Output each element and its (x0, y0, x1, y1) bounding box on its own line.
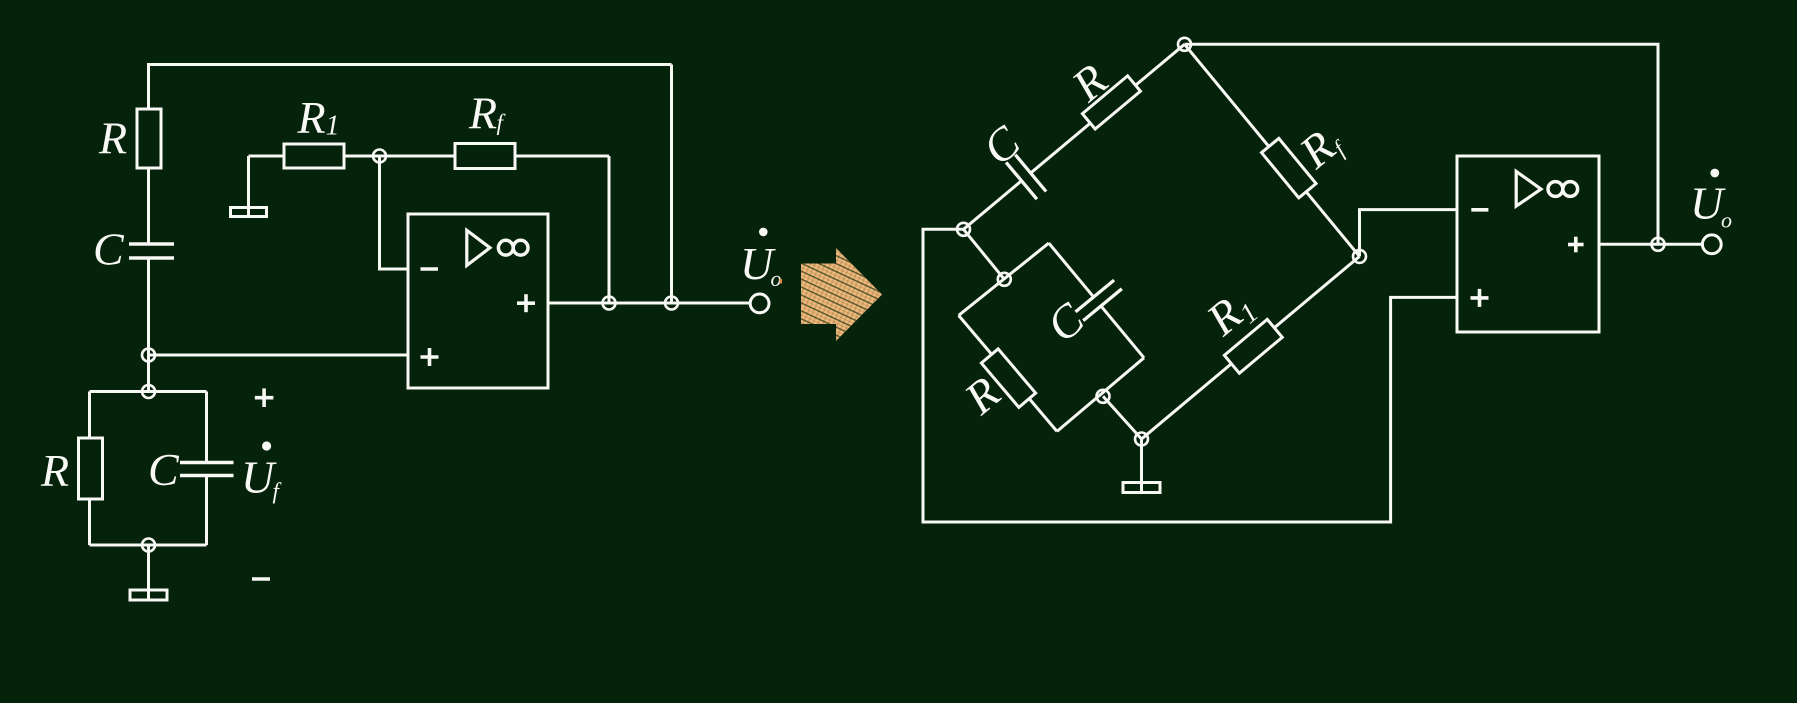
output terminal Uo (left) (750, 294, 769, 313)
ground (right circuit) stem (1140, 439, 1143, 492)
wire: op-amp output to terminal (1599, 243, 1702, 246)
capacitor C (small diamond) plates (1076, 280, 1115, 312)
plus sign (Uf polarity) (255, 396, 274, 400)
op-amp U1 output plus label (517, 301, 535, 305)
wire: Rf column down to output (608, 156, 611, 303)
resistor R1 (284, 144, 344, 168)
wire: right node stub up to op-amp - input (1360, 210, 1458, 257)
svg-text:C: C (93, 224, 125, 275)
node: R1/Rf junction (373, 150, 386, 163)
resistor R1 (bridge bottom-right arm) (1224, 319, 1282, 373)
node: RC loop bottom junction (142, 539, 155, 552)
svg-text:o: o (771, 266, 782, 291)
label R (small diamond) rotated (954, 367, 1009, 425)
wire: feedback column down (670, 65, 673, 304)
wire: series C to top node (bridge left arm upper, through R) (1031, 44, 1184, 172)
wire: top feedback from R top to output column (149, 63, 672, 66)
wire: RC loop top edge (90, 390, 207, 393)
label Uf with dot (262, 441, 271, 450)
resistor R (parallel RC, left branch) (79, 438, 103, 499)
wire: bottom node to right node through R1 (1142, 256, 1360, 439)
label Rf rotated (1289, 114, 1352, 179)
node: bridge left (957, 223, 970, 236)
resistor Rf (455, 144, 515, 169)
op-amp A2 infinity symbol (1548, 182, 1563, 197)
wire: left loop from L around bottom to op-amp + input (923, 229, 1457, 522)
capacitor C (series, left column) plates (129, 242, 174, 246)
node: feedback output junction (665, 297, 678, 310)
capacitor C (parallel RC) plates (180, 461, 234, 465)
svg-text:R: R (98, 113, 127, 164)
node: RC loop top junction (142, 385, 155, 398)
wire: node to op-amp + input (149, 354, 409, 357)
wire: top node to right column (1185, 44, 1659, 244)
wire: L to series C plate (bridge left arm lower) (964, 181, 1022, 229)
wire: junction down to op-amp - input (380, 156, 409, 269)
wire: stub L to small diamond node A (964, 229, 1005, 279)
resistor R (series, left column) (137, 109, 161, 168)
wire: RC loop bottom edge (90, 544, 207, 547)
label Uo (right) with dot (1710, 169, 1719, 178)
wire: op-amp output to terminal (548, 302, 751, 305)
wire: left column below series C down to RC loop (147, 260, 150, 392)
ground (left of R1) bar (231, 208, 267, 217)
wire: small diamond edge G-H through R (959, 315, 1057, 431)
svg-text:R: R (40, 445, 69, 496)
op-amp U1 plus input label (421, 355, 439, 359)
node: bridge top (1178, 38, 1191, 51)
svg-text:o: o (1721, 208, 1732, 233)
ground (below RC loop) bar (130, 590, 167, 600)
svg-text:R: R (468, 87, 497, 138)
svg-text:R: R (297, 92, 326, 143)
wire: small diamond edge B to C plate (1049, 243, 1093, 296)
label R1 rotated (1196, 279, 1264, 349)
svg-text:1: 1 (326, 111, 340, 142)
wire: small diamond edge B-G through A (959, 243, 1049, 315)
node: Rf column output junction (603, 297, 616, 310)
wire: left column vertical (R / C series branch) (147, 63, 150, 243)
svg-text:C: C (148, 444, 180, 495)
ground (below RC loop) stem (147, 545, 150, 599)
op-amp A2 output plus label (1568, 243, 1584, 247)
op-amp U1 triangle symbol (467, 230, 490, 265)
wire: RC loop left branch (88, 392, 91, 546)
node: small diamond A (998, 273, 1011, 286)
node: small diamond F (1097, 390, 1110, 403)
node: output junction (1652, 238, 1665, 251)
wire: stub F to bottom node (1103, 396, 1142, 439)
op-amp A2 minus input label (1471, 208, 1488, 212)
label Uo (left) with dot (759, 228, 768, 237)
capacitor C (bridge) plates (1006, 162, 1037, 199)
op-amp U1 box (408, 214, 548, 388)
node: + input junction (142, 349, 155, 362)
ground (right circuit) bar (1123, 483, 1160, 493)
wire: R1 to Rf through junction (344, 155, 455, 158)
resistor R (bridge top-left arm) (1082, 76, 1140, 129)
node: bridge right (1353, 250, 1366, 263)
arrow speck (780, 279, 783, 284)
label C (small diamond) rotated (1037, 292, 1094, 352)
resistor Rf (bridge top-right arm) (1262, 138, 1317, 197)
wire: RC loop right branch lower (205, 477, 208, 545)
op-amp A2 triangle symbol (1516, 171, 1541, 206)
wire: small diamond C plate to corner E (1100, 305, 1144, 358)
minus sign (Uf polarity) (252, 577, 270, 581)
wire: ground stub to R1 (249, 155, 285, 158)
wire: top node to right node through Rf (1185, 44, 1360, 256)
arrow (orange block arrow) (801, 248, 882, 341)
resistor R (small diamond) (981, 349, 1035, 407)
label R (bridge arm) rotated (1061, 54, 1116, 112)
wire: small diamond edge E-H through F (1057, 358, 1144, 432)
op-amp U1 minus input label (421, 267, 439, 271)
wire: Rf right to down column (515, 155, 609, 158)
op-amp A2 plus input label (1471, 296, 1489, 300)
op-amp A2 box (1457, 156, 1599, 332)
label C (bridge arm) rotated (973, 115, 1030, 175)
wire: RC loop right branch upper (205, 392, 208, 462)
op-amp U1 infinity symbol (498, 240, 513, 255)
ground (left of R1) stem (247, 156, 250, 216)
node: bridge bottom (1135, 433, 1148, 446)
output terminal Uo (right) (1702, 235, 1721, 254)
